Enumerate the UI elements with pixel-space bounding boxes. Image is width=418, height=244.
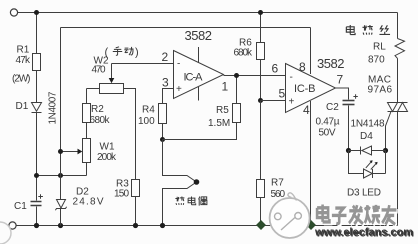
svg-text:-: - <box>177 59 180 70</box>
svg-text:1: 1 <box>222 80 229 94</box>
wire: thermocouple upper lead <box>163 140 197 183</box>
svg-text:IC-A: IC-A <box>184 72 204 84</box>
svg-text:6: 6 <box>272 62 279 76</box>
wire: D2 anode to bottom rail <box>60 209 62 226</box>
svg-text:C2: C2 <box>326 102 339 113</box>
svg-text:680k: 680k <box>90 115 111 126</box>
resistor R6 body <box>257 43 265 60</box>
wire: C1 to bottom rail <box>36 207 38 226</box>
wire: W2 wiper to IC-A pin 2 <box>112 63 174 65</box>
junction D2 ground <box>58 223 63 228</box>
watermark logo circle <box>270 193 310 238</box>
op-amp IC-A triangle <box>174 51 224 99</box>
junction V+ node <box>58 173 63 178</box>
wire: R5 top to IC-A output node <box>236 76 238 104</box>
watermark text white emboss pass <box>318 206 397 226</box>
wire: C2 to diode loop left node <box>348 106 350 151</box>
svg-text:+: + <box>289 97 295 108</box>
svg-text:(2W): (2W) <box>12 74 31 85</box>
wire: R7 to bottom rail <box>260 198 262 226</box>
wire: pin 5 lead <box>261 100 286 102</box>
junction D1 cathode node <box>34 173 39 178</box>
label thermocouple Chinese <box>175 196 207 205</box>
svg-text:D1: D1 <box>16 101 29 112</box>
wire: IC-A output to IC-B pin 6 <box>224 75 286 77</box>
svg-text:www.elecfans.com: www.elecfans.com <box>314 227 413 239</box>
op-amp IC-B triangle <box>286 64 336 113</box>
wire: IC-B pin 8 stub to V+ rail <box>310 28 312 75</box>
wire: top rail to R6 <box>260 13 262 43</box>
svg-text:D4: D4 <box>360 131 373 142</box>
svg-text:0.47µ: 0.47µ <box>316 117 340 128</box>
junction R7 ground (green) <box>256 220 266 230</box>
svg-text:R5: R5 <box>216 105 229 116</box>
terminal: AC line input (top left open circle) <box>10 9 17 16</box>
svg-text:R7: R7 <box>271 178 284 189</box>
junction R3 ground <box>133 223 138 228</box>
svg-text:IC-B: IC-B <box>294 83 316 95</box>
svg-text:5: 5 <box>279 87 286 101</box>
svg-text:1.5M: 1.5M <box>208 118 230 129</box>
wire: R2 top to W2 left end <box>87 89 100 104</box>
resistor R2 body <box>83 104 91 123</box>
svg-text:3582: 3582 <box>317 56 345 71</box>
svg-text:47k: 47k <box>16 55 32 66</box>
svg-text:4: 4 <box>303 103 310 117</box>
svg-text:3582: 3582 <box>185 28 213 43</box>
capacitor C1 (polarized) <box>31 194 43 205</box>
wire: bottom AC rail (ground return) <box>16 225 397 227</box>
wire: R4 to feedback node <box>162 124 164 140</box>
svg-text:8: 8 <box>299 60 306 74</box>
svg-text:100: 100 <box>138 116 155 127</box>
svg-text:150: 150 <box>114 189 129 200</box>
wire: IC-B output pin 7 to C2 <box>336 88 349 100</box>
wire: W1 wiper tap from V+ rail <box>61 151 78 153</box>
svg-text:1N4007: 1N4007 <box>48 91 59 124</box>
svg-text:2: 2 <box>162 50 169 64</box>
wire: D1 to C1 <box>36 113 38 201</box>
wire: top AC rail <box>18 12 398 14</box>
svg-text:97A6: 97A6 <box>368 85 393 96</box>
wire: diode loop frame <box>349 151 386 174</box>
svg-text:24.8V: 24.8V <box>73 197 104 208</box>
label heater wire Chinese <box>346 25 390 35</box>
resistor R3 body <box>132 180 140 197</box>
wire: pin 5 node down to R7 <box>260 101 262 180</box>
resistor RL (heater element, zigzag) <box>395 39 405 59</box>
thermocouple junction bead <box>194 179 200 185</box>
wire: IC-A pin 3 to R4 <box>163 89 174 104</box>
svg-text:470: 470 <box>92 65 106 76</box>
svg-text:870: 870 <box>368 55 385 66</box>
wire: R1 to D1 <box>36 71 38 103</box>
svg-text:3: 3 <box>162 76 169 90</box>
LED D3 symbol <box>364 160 378 178</box>
junction IC-A output / R5 <box>234 73 239 78</box>
junction top rail / R6 <box>258 10 263 15</box>
junction diode loop right node (gate) <box>383 148 388 153</box>
wire: V+ rail top horizontal to IC-B pin 8 <box>61 27 311 29</box>
svg-text:-: - <box>290 72 293 83</box>
diode D4 1N4148 symbol <box>349 146 386 155</box>
wire: RL to triac MT2 <box>397 58 399 102</box>
watermark corner arc <box>0 222 11 244</box>
wire: R6 down across pin6 wire to pin5 node <box>260 60 262 101</box>
resistor R1 body <box>33 54 41 71</box>
capacitor C2 (polarized) <box>343 94 358 104</box>
potentiometer W1 body <box>83 139 91 163</box>
resistor R5 body <box>233 104 241 123</box>
wire: thermocouple lower lead <box>163 182 197 226</box>
zener diode D2 symbol <box>55 200 66 211</box>
wire: triac gate to LED loop node <box>386 112 392 151</box>
svg-text:50V: 50V <box>319 128 336 139</box>
terminal: AC neutral (bottom left open circle) <box>9 222 16 229</box>
diode D1 symbol <box>32 103 42 113</box>
wire: IC-B pin 4 stub to ground rail <box>310 101 312 226</box>
wire: W1 top to R2 <box>86 123 88 139</box>
junction IC-B pin 4 ground (green) <box>306 220 316 230</box>
svg-text:1N4148: 1N4148 <box>351 119 385 130</box>
svg-text:7: 7 <box>337 73 344 87</box>
wire: V+ rail vertical <box>60 28 62 200</box>
svg-text:200k: 200k <box>97 152 117 163</box>
wire: right rail from top corner down to RL <box>397 13 399 39</box>
svg-text:D3 LED: D3 LED <box>347 188 381 199</box>
wire: W2 right end down to R3 <box>124 89 136 180</box>
svg-text:(: ( <box>105 47 109 59</box>
junction diode loop left node <box>346 148 351 153</box>
svg-text:R1: R1 <box>17 45 30 56</box>
wire: triac MT1 down to bottom rail <box>397 112 399 226</box>
junction feedback node <box>160 137 165 142</box>
junction pin 5 node <box>258 98 263 103</box>
wiper arrow of W2 <box>111 64 113 79</box>
junction thermocouple ground <box>160 223 165 228</box>
potentiometer W2 body <box>100 84 124 94</box>
label (manual) Chinese <box>113 47 134 55</box>
svg-text:C1: C1 <box>14 201 27 212</box>
wire: feedback node to R5 <box>163 123 237 140</box>
resistor R4 body <box>159 104 167 124</box>
svg-text:R2: R2 <box>91 104 104 115</box>
svg-text:+: + <box>176 84 182 95</box>
wire: rectified node to zener column <box>37 175 87 177</box>
wire: top rail to R1 <box>36 13 38 54</box>
svg-text:W1: W1 <box>100 142 115 153</box>
wire: R3 to bottom rail <box>135 197 137 226</box>
junction wiper tap on rail <box>58 149 63 154</box>
svg-text:): ) <box>135 47 139 59</box>
triac V1 MAC97A6 symbol <box>388 103 408 112</box>
junction top rail / R1 <box>34 10 39 15</box>
resistor R7 body <box>257 180 265 198</box>
wire: W1 bottom to V+ node <box>86 163 88 176</box>
watermark text gray pass <box>317 205 396 225</box>
svg-text:RL: RL <box>373 42 386 53</box>
wiper arrow of W1 <box>78 149 83 155</box>
svg-text:680k: 680k <box>234 48 254 59</box>
svg-text:R4: R4 <box>142 105 155 116</box>
IC-A power pin ticks <box>198 47 200 101</box>
junction C1 ground <box>34 223 39 228</box>
